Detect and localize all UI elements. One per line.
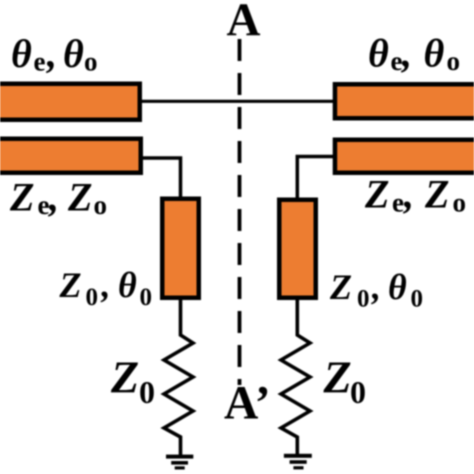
svg-text:e: e — [34, 46, 46, 76]
svg-text:o: o — [447, 46, 461, 76]
svg-text:Z: Z — [424, 172, 449, 217]
svg-text:θ: θ — [424, 31, 445, 76]
svg-text:e: e — [38, 190, 50, 220]
svg-text:o: o — [453, 187, 467, 217]
svg-text:e: e — [392, 187, 404, 217]
svg-text:Z: Z — [67, 174, 92, 219]
svg-text:,: , — [403, 172, 414, 217]
svg-text:,: , — [371, 267, 381, 307]
svg-text:θ: θ — [388, 267, 407, 307]
svg-text:o: o — [94, 190, 108, 220]
svg-text:Z: Z — [110, 352, 139, 403]
svg-text:θ: θ — [118, 265, 137, 305]
svg-text:,: , — [401, 31, 412, 76]
svg-text:θ: θ — [11, 31, 32, 76]
svg-text:0: 0 — [86, 284, 99, 311]
svg-text:Z: Z — [329, 267, 352, 307]
svg-text:0: 0 — [350, 374, 366, 410]
svg-text:,: , — [46, 31, 57, 76]
svg-text:Z: Z — [59, 265, 82, 305]
svg-text:0: 0 — [140, 284, 153, 311]
svg-text:,: , — [48, 174, 59, 219]
svg-text:θ: θ — [368, 31, 389, 76]
svg-text:A: A — [227, 0, 261, 46]
svg-text:A’: A’ — [224, 378, 271, 430]
svg-text:o: o — [84, 46, 98, 76]
svg-text:θ: θ — [63, 31, 84, 76]
svg-text:0: 0 — [139, 374, 155, 410]
svg-text:e: e — [391, 46, 403, 76]
svg-text:0: 0 — [357, 286, 370, 313]
svg-text:,: , — [101, 265, 111, 305]
svg-text:Z: Z — [9, 174, 34, 219]
svg-text:Z: Z — [364, 172, 389, 217]
svg-text:Z: Z — [323, 352, 352, 403]
svg-text:0: 0 — [411, 286, 424, 313]
